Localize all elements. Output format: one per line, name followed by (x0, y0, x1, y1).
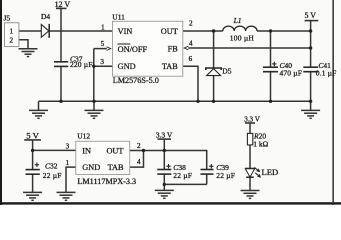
svg-text:LED: LED (262, 167, 279, 177)
svg-text:L1: L1 (233, 16, 242, 25)
svg-text:U11: U11 (112, 13, 125, 22)
svg-text:TAB: TAB (108, 163, 124, 172)
svg-text:OUT: OUT (161, 27, 178, 36)
svg-text:U12: U12 (77, 131, 90, 140)
svg-text:LM2576S-5.0: LM2576S-5.0 (113, 76, 159, 85)
svg-text:12 V: 12 V (55, 0, 71, 9)
svg-text:3: 3 (66, 142, 70, 150)
svg-text:GND: GND (82, 163, 100, 172)
svg-text:VIN: VIN (118, 27, 133, 36)
svg-text:1: 1 (101, 24, 105, 32)
svg-text:6: 6 (189, 55, 193, 63)
svg-text:0.1 µF: 0.1 µF (316, 69, 337, 78)
svg-text:4: 4 (137, 158, 141, 166)
svg-text:470 µF: 470 µF (280, 69, 303, 78)
svg-text:2: 2 (137, 142, 141, 150)
svg-text:4: 4 (189, 39, 193, 47)
svg-text:LM1117MPX-3.3: LM1117MPX-3.3 (77, 177, 136, 186)
svg-text:IN: IN (82, 147, 91, 156)
svg-text:1 kΩ: 1 kΩ (253, 139, 268, 148)
svg-text:1: 1 (10, 28, 14, 36)
svg-text:3: 3 (100, 58, 104, 66)
svg-text:5: 5 (101, 40, 105, 48)
svg-text:ON/OFF: ON/OFF (118, 45, 148, 54)
svg-text:D4: D4 (41, 12, 50, 21)
svg-text:3.3 V: 3.3 V (156, 130, 173, 139)
svg-text:1: 1 (66, 159, 70, 167)
svg-text:D5: D5 (222, 66, 231, 75)
svg-text:2: 2 (10, 37, 14, 45)
svg-text:22 µF: 22 µF (173, 171, 192, 180)
svg-text:100 µH: 100 µH (230, 33, 255, 42)
svg-text:22 µF: 22 µF (43, 171, 62, 180)
svg-text:3.3 V: 3.3 V (244, 116, 261, 124)
svg-text:GND: GND (118, 62, 136, 71)
svg-text:C32: C32 (45, 162, 58, 171)
svg-text:5 V: 5 V (305, 11, 317, 20)
svg-text:J5: J5 (4, 14, 11, 23)
svg-text:FB: FB (168, 44, 179, 53)
svg-text:2: 2 (189, 20, 193, 28)
svg-text:220 µF: 220 µF (70, 60, 93, 69)
svg-text:22 µF: 22 µF (216, 171, 235, 180)
svg-text:TAB: TAB (162, 62, 178, 71)
svg-text:5 V: 5 V (26, 130, 39, 140)
svg-text:OUT: OUT (106, 147, 123, 156)
